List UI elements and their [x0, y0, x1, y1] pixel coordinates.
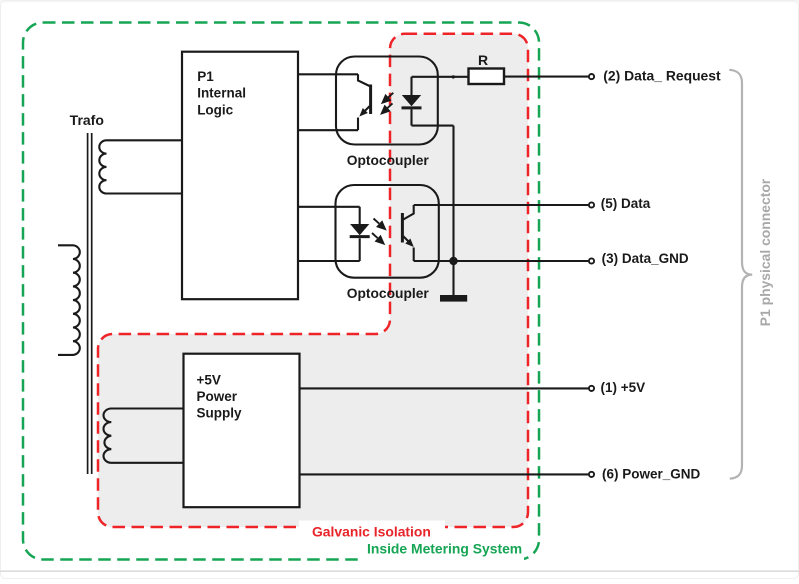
svg-text:Optocoupler: Optocoupler: [347, 286, 430, 301]
svg-text:Logic: Logic: [197, 102, 233, 117]
svg-text:Galvanic Isolation: Galvanic Isolation: [312, 524, 431, 540]
svg-text:Power: Power: [197, 389, 238, 404]
svg-text:Inside Metering System: Inside Metering System: [367, 541, 522, 557]
svg-text:(6) Power_GND: (6) Power_GND: [602, 467, 701, 482]
svg-text:Supply: Supply: [197, 406, 242, 421]
svg-text:(2) Data_ Request: (2) Data_ Request: [603, 67, 721, 83]
svg-text:R: R: [478, 52, 488, 68]
svg-text:Optocoupler: Optocoupler: [347, 153, 430, 168]
svg-text:(1) +5V: (1) +5V: [601, 380, 646, 395]
svg-text:+5V: +5V: [197, 373, 221, 388]
svg-text:(5) Data: (5) Data: [601, 196, 651, 211]
svg-text:P1: P1: [197, 69, 214, 84]
svg-text:Internal: Internal: [197, 86, 246, 101]
svg-text:Trafo: Trafo: [70, 112, 104, 128]
svg-text:(3) Data_GND: (3) Data_GND: [602, 251, 689, 266]
svg-text:P1 physical connector: P1 physical connector: [757, 178, 773, 326]
